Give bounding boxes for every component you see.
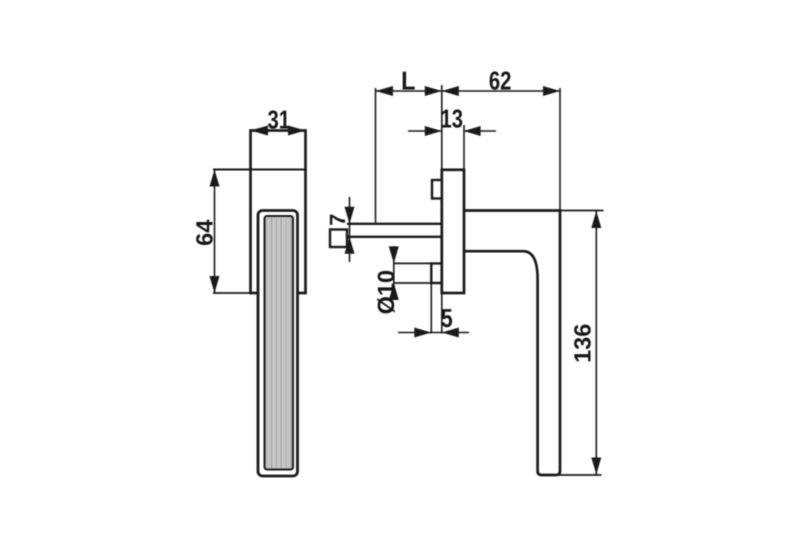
spindle end square bbox=[330, 230, 347, 248]
svg-text:31: 31 bbox=[268, 105, 291, 135]
64 arrow down bbox=[210, 276, 220, 293]
O10 arrow down bbox=[389, 246, 399, 263]
svg-text:Ø10: Ø10 bbox=[373, 270, 399, 314]
plate top separation line + 64 top extension bbox=[213, 168, 306, 170]
grip (front) inner wood insert bbox=[265, 216, 294, 470]
7 dimension bbox=[349, 197, 351, 262]
136 arrow up bbox=[591, 211, 601, 228]
64 dimension line bbox=[214, 170, 216, 294]
13 right arrow bbox=[464, 126, 481, 136]
5 arrow pointing left bbox=[442, 328, 459, 338]
O10 extension bottom bbox=[393, 282, 431, 284]
rose plate rectangle bbox=[251, 131, 306, 294]
svg-text:5: 5 bbox=[441, 303, 453, 333]
O10 arrow up bbox=[389, 283, 399, 300]
L right arrow bbox=[425, 86, 442, 96]
7 arrow down bbox=[345, 207, 355, 224]
64 arrow up bbox=[210, 170, 220, 187]
svg-text:136: 136 bbox=[570, 324, 596, 363]
5 arrow pointing right bbox=[414, 328, 431, 338]
62 right arrow bbox=[543, 86, 560, 96]
136 bottom extension bbox=[552, 474, 602, 476]
136 top extension bbox=[560, 210, 604, 212]
svg-text:L: L bbox=[401, 66, 415, 96]
rose plate bar (side) bbox=[442, 170, 464, 293]
clip on back of bar bbox=[432, 180, 442, 199]
handle arm and grip (side) bbox=[464, 211, 560, 476]
L left arrow bbox=[376, 86, 394, 96]
spindle bottom line bbox=[347, 236, 442, 238]
62 left arrow bbox=[442, 86, 459, 96]
shared extension line at bar left bbox=[441, 85, 443, 170]
5 dimension bbox=[398, 332, 469, 334]
svg-text:13: 13 bbox=[441, 103, 464, 133]
O10 extension top bbox=[393, 262, 431, 264]
svg-text:7: 7 bbox=[325, 214, 350, 226]
svg-text:62: 62 bbox=[489, 66, 512, 96]
13 left arrow bbox=[425, 126, 442, 136]
5 left extension (below stub) bbox=[430, 283, 432, 334]
64 bottom extension bbox=[213, 292, 251, 294]
31 arrow right bbox=[288, 126, 306, 136]
spindle top line bbox=[347, 223, 442, 225]
136 arrow down bbox=[591, 458, 601, 475]
grip (front) outer bbox=[258, 211, 298, 477]
L/62 dimension line bbox=[376, 90, 561, 92]
13 dimension bbox=[408, 130, 442, 132]
grip wood grain streaks bbox=[267, 218, 291, 469]
31 arrow left bbox=[251, 126, 269, 136]
136 dimension bbox=[595, 211, 597, 476]
neck stub (5mm) bbox=[431, 263, 442, 283]
5 right extension (below bar) bbox=[441, 293, 443, 334]
O10 dimension bbox=[393, 246, 395, 300]
L extension line bbox=[375, 88, 377, 223]
62 right extension line bbox=[559, 88, 561, 211]
svg-text:64: 64 bbox=[191, 220, 217, 246]
13 right extension bbox=[463, 125, 465, 170]
7 arrow up bbox=[345, 237, 355, 254]
